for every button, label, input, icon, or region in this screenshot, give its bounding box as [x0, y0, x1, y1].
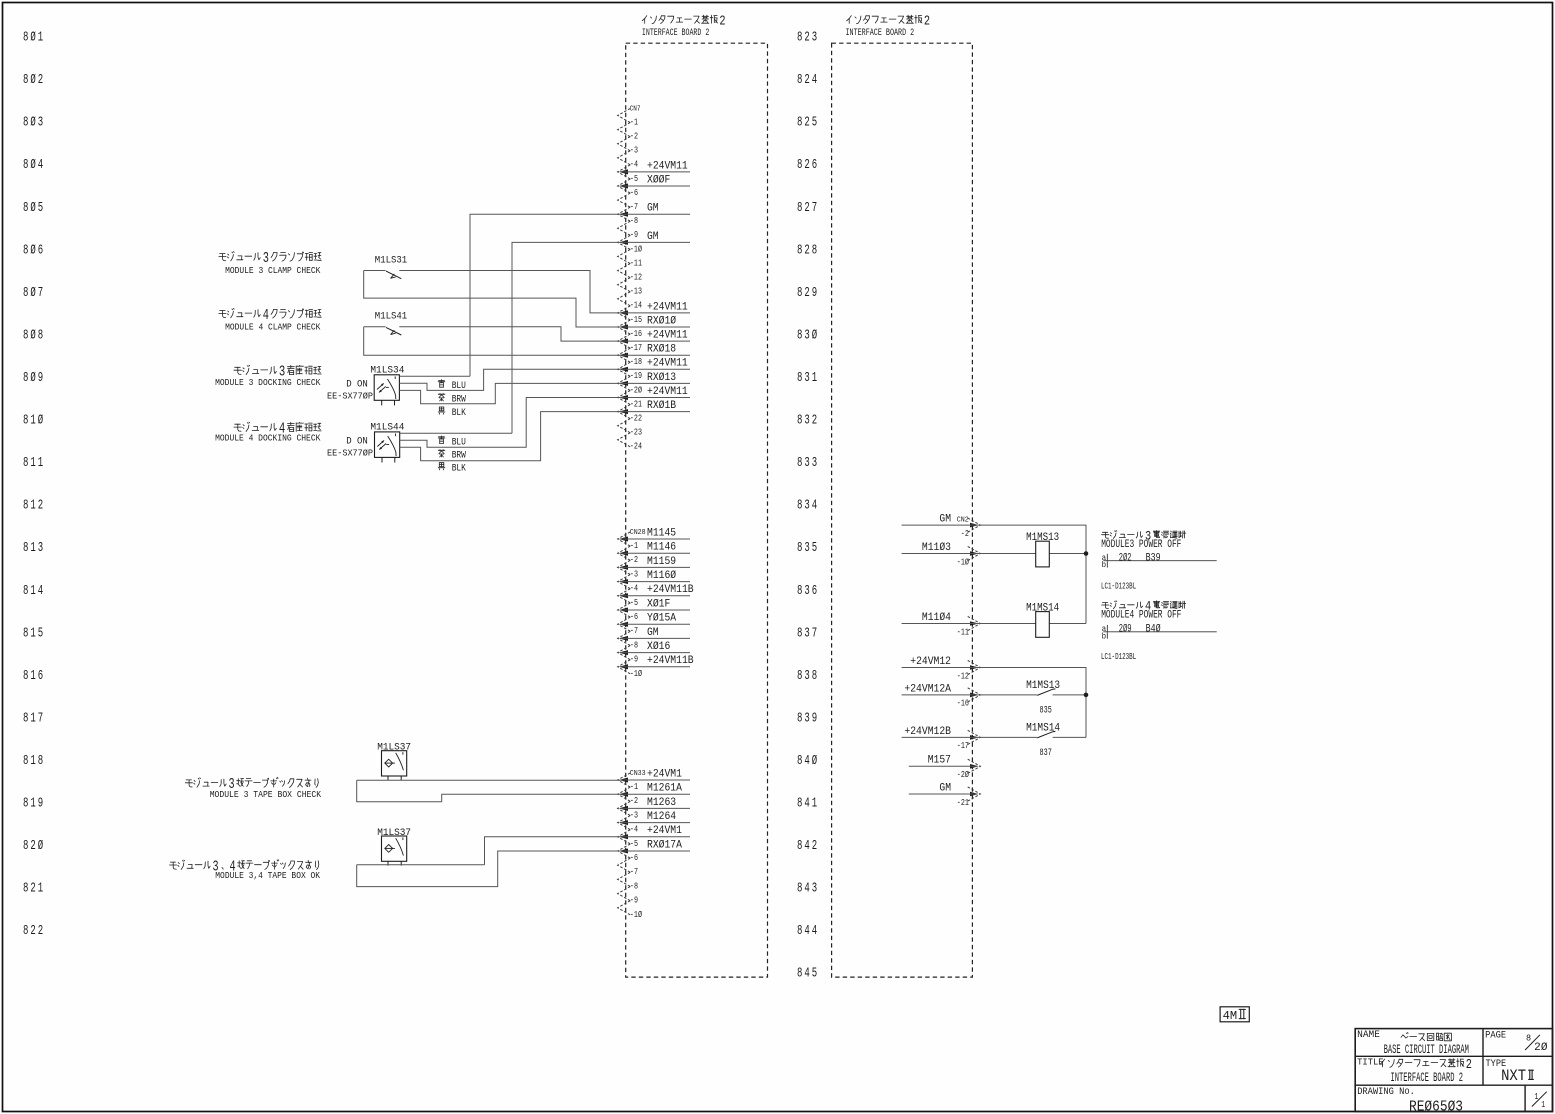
svg-text:D ON: D ON: [346, 435, 368, 446]
connector CN7 pin 24: [618, 433, 631, 447]
wire CN7-15 stub: [621, 326, 691, 328]
connector CN33 pin 5: [618, 830, 631, 844]
connector CN28 pin 6: [618, 603, 631, 617]
label CN7 pin number -3: [630, 145, 638, 156]
svg-text:M1264: M1264: [647, 811, 676, 823]
svg-text:5: 5: [812, 967, 817, 982]
svg-text:3: 3: [804, 669, 809, 684]
label CN28 pin number -6: [630, 611, 638, 622]
svg-text:M1261A: M1261A: [647, 783, 682, 795]
svg-text:7: 7: [812, 626, 817, 641]
wire CN33 row 6 stub: [621, 850, 691, 852]
connector CN33 pin 3: [618, 801, 631, 815]
label 4M II machine tag: [1220, 1007, 1249, 1023]
svg-text:9: 9: [812, 286, 817, 301]
svg-text:INTERFACE BOARD 2: INTERFACE BOARD 2: [642, 27, 709, 38]
svg-text:B39: B39: [1146, 552, 1161, 564]
svg-text:8: 8: [797, 669, 802, 684]
svg-text:M1LS41: M1LS41: [375, 311, 407, 323]
svg-text:PAGE: PAGE: [1485, 1029, 1506, 1041]
svg-text:-3: -3: [630, 568, 638, 579]
label MODULE 3 TAPE BOX CHECK: [185, 777, 321, 800]
wire CN33 row 3 stub: [621, 807, 691, 809]
svg-text:-2: -2: [630, 131, 638, 142]
svg-text:+24VM11: +24VM11: [647, 160, 688, 172]
label CN33 pin number -7: [630, 866, 638, 877]
net M1146 at CN28 signal label: [647, 542, 676, 554]
connector CN7 pin 5: [618, 165, 631, 179]
svg-text:M1LS37: M1LS37: [377, 742, 411, 754]
connector CN28 pin 9: [618, 646, 631, 660]
connector CN7 pin 12: [618, 264, 631, 278]
svg-text:-1: -1: [630, 781, 638, 792]
svg-text:TITLE: TITLE: [1357, 1057, 1384, 1068]
wire CN7-14 stub: [621, 312, 691, 314]
svg-text:NAME: NAME: [1357, 1029, 1380, 1041]
wire M1LS41 left terminal: [364, 326, 386, 328]
svg-text:8: 8: [23, 797, 28, 812]
svg-text:8: 8: [797, 73, 802, 88]
wire M1LS31 return to CN7-15 (RX010): [364, 271, 621, 328]
svg-text:8: 8: [23, 711, 28, 726]
limit switch M1LS31 (module 3 clamp): [375, 255, 407, 279]
label MODULE 3,4 TAPE BOX OK: [170, 859, 321, 881]
svg-text:GM: GM: [647, 627, 659, 639]
wire M1104 to coil M1MS14: [902, 623, 1086, 625]
wire CN28 row 1 stub: [621, 538, 691, 540]
svg-text:b: b: [1102, 633, 1107, 641]
svg-text:1: 1: [30, 456, 35, 471]
svg-text:-12: -12: [630, 272, 642, 283]
wire CN28 row 7 stub: [621, 623, 691, 625]
wire CN28 row 2 stub: [621, 552, 691, 554]
wire CN28 row 8 stub: [621, 637, 691, 639]
wire GM CN7-9 to M1LS44: [512, 242, 621, 433]
wire CN33 row 1 stub: [621, 779, 691, 781]
connector CN7 label: [630, 106, 641, 114]
connector CN7 pin 11: [618, 249, 631, 263]
label CN28 pin number -3: [630, 568, 638, 579]
svg-text:-16: -16: [630, 328, 642, 339]
svg-text:Ø: Ø: [30, 327, 35, 343]
svg-text:-1Ø: -1Ø: [630, 909, 642, 920]
svg-text:4: 4: [812, 73, 817, 88]
label interface board 2 (right) header: [846, 14, 931, 38]
connector CN33 label: [630, 770, 646, 778]
svg-text:-7: -7: [630, 201, 638, 212]
net YØ15A at CN28 signal label: [647, 613, 676, 625]
svg-text:4: 4: [263, 308, 269, 324]
label CN7 pin number -23: [630, 427, 642, 438]
interface board U-IF2L: INTERFACE BOARD 2 (left) dashed outline: [626, 43, 768, 977]
net GM at CN28 signal label: [647, 627, 659, 639]
svg-text:BRW: BRW: [452, 451, 467, 462]
connector CN33 pin 6: [618, 844, 631, 858]
svg-text:8: 8: [797, 456, 802, 471]
label CN7 pin number -8: [630, 215, 638, 226]
svg-text:8: 8: [23, 31, 28, 46]
proximity sensor M1LS37 (module 3,4 tape box): [377, 827, 411, 866]
svg-text:4: 4: [804, 924, 809, 939]
svg-text:-5: -5: [630, 597, 638, 608]
svg-text:INTERFACE BOARD 2: INTERFACE BOARD 2: [846, 27, 915, 38]
label CN28 pin number -9: [630, 654, 638, 665]
svg-text:8: 8: [797, 328, 802, 343]
svg-text:-5: -5: [630, 173, 638, 184]
svg-text:-2: -2: [630, 554, 638, 565]
svg-text:Ø: Ø: [30, 242, 35, 258]
svg-text:9: 9: [38, 371, 43, 386]
wire CN28 row 5 stub: [621, 595, 691, 597]
wire M1LS31 left terminal: [364, 270, 386, 272]
svg-text:8: 8: [797, 541, 802, 556]
net RXØ18 at CN7-17 signal label: [647, 344, 676, 356]
photoelectric sensor M1LS44 EE-SX770P (module 4 docking): [327, 422, 404, 463]
contactor coil M1MS14: [1026, 602, 1059, 637]
label CN28 pin number -1: [630, 540, 638, 551]
label CN7 pin number -18: [630, 356, 642, 367]
svg-text:-19: -19: [630, 370, 642, 381]
connector CN33 pin 7: [618, 858, 631, 872]
connector CN33 pin 9: [618, 887, 631, 901]
connector CN2 pin -2: [968, 518, 981, 532]
wire +24VM12B through contact M1MS14: [902, 736, 1086, 738]
wire M157 stub CN2-20: [909, 765, 977, 767]
wire CN28 row 6 stub: [621, 609, 691, 611]
svg-text:BASE CIRCUIT DIAGRAM: BASE CIRCUIT DIAGRAM: [1384, 1042, 1469, 1057]
svg-text:8: 8: [797, 967, 802, 982]
svg-text:4: 4: [804, 839, 809, 854]
svg-text:-7: -7: [630, 625, 638, 636]
net +24VM11 at CN7-20 signal label: [647, 386, 688, 398]
svg-text:8: 8: [797, 839, 802, 854]
wire M1LS37b feed: [357, 864, 485, 866]
svg-text:8: 8: [797, 924, 802, 939]
svg-text:M1LS31: M1LS31: [375, 255, 407, 267]
svg-text:5: 5: [38, 626, 43, 641]
svg-text:Ø: Ø: [812, 327, 817, 343]
svg-text:3: 3: [804, 541, 809, 556]
svg-text:BLK: BLK: [452, 408, 467, 419]
connector CN28 pin 1: [618, 532, 631, 546]
label CN33 pin number -9: [630, 895, 638, 906]
svg-text:-14: -14: [630, 300, 642, 311]
connector CN33 pin 8: [618, 872, 631, 886]
label CN2 pin number -12: [957, 670, 969, 681]
label CN7 pin number -17: [630, 342, 642, 353]
svg-text:-4: -4: [630, 583, 638, 594]
connector CN7 pin 4: [618, 151, 631, 165]
label CN2 pin number -2: [961, 528, 969, 539]
svg-text:4: 4: [804, 882, 809, 897]
label NAME: BASE CIRCUIT DIAGRAM: [1357, 1029, 1469, 1057]
net M11Ø3 at CN2 signal label: [922, 542, 951, 554]
svg-text:EE-SX77ØP: EE-SX77ØP: [327, 449, 373, 459]
label CN33 pin number -6: [630, 852, 638, 863]
net XØ16 at CN28 signal label: [647, 641, 670, 653]
svg-text:GM: GM: [939, 782, 951, 794]
limit switch M1LS41 (module 4 clamp): [375, 311, 407, 336]
svg-text:8: 8: [797, 584, 802, 599]
net XØØF at CN7-5 signal label: [647, 174, 670, 186]
wire M1LS41 return to CN7-17 (RX018): [364, 327, 621, 355]
label CN7 pin number -15: [630, 314, 642, 325]
label CN7 pin number -4: [630, 159, 638, 170]
svg-text:8: 8: [38, 328, 43, 343]
svg-text:2: 2: [812, 414, 817, 429]
connector CN7 pin 8: [618, 207, 631, 221]
connector CN2 pin -16: [968, 688, 981, 702]
label coil M1MS14 contact cross-references a/b 209 B40: [1102, 624, 1217, 642]
wire CN7-17 stub: [621, 354, 691, 356]
svg-text:4: 4: [38, 584, 43, 599]
label CN7 pin number -5: [630, 173, 638, 184]
label CN7 pin number -11: [630, 257, 642, 268]
label CN33 pin number -5: [630, 838, 638, 849]
svg-text:D ON: D ON: [346, 378, 368, 389]
svg-text:-6: -6: [630, 611, 638, 622]
svg-text:2: 2: [38, 73, 43, 88]
svg-text:3: 3: [804, 626, 809, 641]
wire M1103 to coil M1MS13: [902, 553, 1086, 555]
net RXØ1B at CN7-21 signal label: [647, 400, 676, 412]
connector CN2 pin -2Ø: [968, 759, 981, 773]
wire CN7-5 stub: [621, 185, 691, 187]
net M1145 at CN28 signal label: [647, 527, 676, 539]
label CN33 pin number -4: [630, 824, 638, 835]
svg-text:M1MS14: M1MS14: [1026, 602, 1059, 614]
svg-text:LC1-D123BL: LC1-D123BL: [1101, 581, 1136, 591]
connector CN7 pin 9: [618, 221, 631, 235]
svg-text:MODULE 3 TAPE BOX CHECK: MODULE 3 TAPE BOX CHECK: [210, 790, 322, 800]
svg-text:3: 3: [804, 371, 809, 386]
label CN33 pin number -2: [630, 795, 638, 806]
label PAGE 8/20: [1485, 1029, 1548, 1054]
svg-text:2: 2: [812, 839, 817, 854]
connector CN28 pin 2: [618, 546, 631, 560]
connector CN7 pin 23: [618, 419, 631, 433]
label CN2 pin number -16: [957, 698, 969, 709]
label DRAWING No. RE06503: [1357, 1086, 1463, 1114]
connector CN7 pin 7: [618, 193, 631, 207]
svg-text:-11: -11: [957, 626, 969, 637]
svg-text:-22: -22: [630, 413, 642, 424]
connector CN7 pin 20: [618, 376, 631, 390]
connector CN7 pin 2: [618, 123, 631, 137]
svg-text:8: 8: [797, 243, 802, 258]
svg-text:-13: -13: [630, 286, 642, 297]
svg-text:XØ1F: XØ1F: [647, 598, 670, 610]
svg-text:M1MS13: M1MS13: [1026, 680, 1060, 692]
connector CN7 pin 13: [618, 278, 631, 292]
svg-text:RXØ18: RXØ18: [647, 344, 676, 356]
svg-text:8: 8: [23, 201, 28, 216]
svg-text:2: 2: [804, 286, 809, 301]
svg-text:M157: M157: [928, 755, 951, 767]
svg-text:-21: -21: [957, 797, 969, 808]
svg-text:M116Ø: M116Ø: [647, 570, 676, 582]
net RXØ1Ø at CN7-15 signal label: [647, 315, 676, 327]
svg-text:-4: -4: [630, 159, 638, 170]
wire GM CN2-2 to bus: [902, 525, 1086, 623]
svg-text:XØ16: XØ16: [647, 641, 670, 653]
svg-text:8: 8: [23, 924, 28, 939]
svg-text:8: 8: [23, 626, 28, 641]
net +24VM12A at CN2 signal label: [904, 683, 951, 695]
svg-text:Ø: Ø: [812, 753, 817, 769]
connector CN7 pin 3: [618, 137, 631, 151]
svg-text:-4: -4: [630, 824, 638, 835]
svg-text:3: 3: [263, 251, 269, 267]
svg-text:2: 2: [719, 14, 725, 29]
svg-text:4M: 4M: [1223, 1009, 1238, 1023]
svg-text:-16: -16: [957, 698, 969, 709]
svg-text:Ø: Ø: [30, 30, 35, 46]
label CN7 pin number -6: [630, 187, 638, 198]
svg-text:3: 3: [804, 499, 809, 514]
svg-text:-1Ø: -1Ø: [957, 556, 969, 567]
label MODULE3 POWER OFF: [1101, 529, 1186, 551]
net GM at CN2 signal label: [939, 782, 951, 794]
connector CN7 pin 10: [618, 235, 631, 249]
svg-text:YØ15A: YØ15A: [647, 613, 676, 625]
NO contact M1MS13 (ref 835): [1026, 680, 1060, 716]
connector CN2 label: [957, 516, 969, 524]
svg-text:RXØ1Ø: RXØ1Ø: [647, 315, 676, 327]
svg-text:Ø: Ø: [30, 370, 35, 386]
svg-text:RXØ17A: RXØ17A: [647, 839, 682, 851]
svg-text:BLK: BLK: [452, 464, 467, 475]
contactor coil M1MS13: [1026, 532, 1059, 567]
label CN7 pin number -22: [630, 413, 642, 424]
svg-text:Ø: Ø: [30, 285, 35, 301]
svg-text:MODULE 3 CLAMP CHECK: MODULE 3 CLAMP CHECK: [225, 266, 321, 276]
svg-text:8: 8: [797, 201, 802, 216]
label CN33 pin number -8: [630, 880, 638, 891]
svg-text:M1145: M1145: [647, 527, 676, 539]
wire M1LS34 blue lead (GM): [399, 375, 470, 377]
svg-text:-17: -17: [630, 342, 642, 353]
wire CN33 row 4 stub: [621, 822, 691, 824]
svg-text:3: 3: [804, 328, 809, 343]
svg-text:MODULE 4 DOCKING CHECK: MODULE 4 DOCKING CHECK: [215, 434, 321, 444]
wire CN7-19 stub: [621, 382, 691, 384]
svg-text:-1Ø: -1Ø: [630, 668, 642, 679]
svg-text:2: 2: [924, 14, 930, 29]
svg-text:CN33: CN33: [630, 770, 646, 778]
wire CN33 row 2 stub: [621, 793, 691, 795]
connector CN33 pin 4: [618, 816, 631, 830]
svg-text:+24VM11: +24VM11: [647, 301, 688, 313]
net M116Ø at CN28 signal label: [647, 570, 676, 582]
svg-text:8: 8: [38, 754, 43, 769]
svg-text:8: 8: [797, 31, 802, 46]
svg-text:MODULE 3,4 TAPE BOX OK: MODULE 3,4 TAPE BOX OK: [215, 871, 320, 881]
svg-text:8: 8: [23, 116, 28, 131]
svg-text:8: 8: [812, 669, 817, 684]
svg-text:1: 1: [30, 584, 35, 599]
connector CN28 pin 10: [618, 660, 631, 674]
svg-text:-2: -2: [630, 795, 638, 806]
svg-text:-3: -3: [630, 809, 638, 820]
svg-text:+24VM12B: +24VM12B: [904, 726, 951, 738]
junction node GM/M1MS13: [1084, 551, 1089, 556]
svg-text:1: 1: [812, 797, 817, 812]
svg-text:8: 8: [797, 626, 802, 641]
node line-numbers 823-845: [797, 31, 817, 982]
label MODULE 4 DOCKING CHECK: [215, 422, 321, 444]
connector CN7 pin 14: [618, 292, 631, 306]
svg-text:8: 8: [797, 499, 802, 514]
label CN2 pin number -2Ø: [957, 769, 969, 780]
label CN28 pin number -8: [630, 639, 638, 650]
label CN28 pin number -10: [630, 668, 642, 679]
svg-text:-1: -1: [630, 116, 638, 127]
wire CN7-16 stub: [621, 340, 691, 342]
wire CN7-21 stub: [621, 411, 691, 413]
svg-text:MODULE 4 CLAMP CHECK: MODULE 4 CLAMP CHECK: [225, 322, 321, 332]
svg-text:6: 6: [38, 669, 43, 684]
svg-text:3: 3: [804, 711, 809, 726]
label CN7 pin number -20: [630, 384, 642, 395]
node line-numbers 801-822: [23, 30, 43, 940]
svg-text:-2: -2: [961, 528, 969, 539]
svg-text:2Ø: 2Ø: [1534, 1042, 1548, 1054]
wire CN7-20 stub: [621, 397, 691, 399]
svg-text:NXT: NXT: [1501, 1067, 1526, 1085]
net M1159 at CN28 signal label: [647, 556, 676, 568]
svg-text:M1146: M1146: [647, 542, 676, 554]
svg-text:1: 1: [30, 414, 35, 429]
svg-text:+24VM11: +24VM11: [647, 330, 688, 342]
svg-text:8: 8: [23, 243, 28, 258]
svg-text:3: 3: [812, 882, 817, 897]
connector CN7 pin 22: [618, 405, 631, 419]
svg-text:1: 1: [30, 711, 35, 726]
net RXØ17A at CN33 signal label: [647, 839, 682, 851]
net GM at CN7-7 signal label: [647, 203, 659, 215]
wire M1LS41 to CN7-16 (+24VM11): [399, 327, 620, 341]
svg-text:-9: -9: [630, 229, 638, 240]
svg-text:Ø: Ø: [38, 413, 43, 429]
svg-text:-11: -11: [630, 257, 642, 268]
svg-text:1: 1: [812, 371, 817, 386]
label CN28 pin number -7: [630, 625, 638, 636]
label CN2 pin number -11: [957, 626, 969, 637]
connector CN2 pin -21: [968, 787, 981, 801]
svg-text:4: 4: [812, 924, 817, 939]
svg-text:1: 1: [30, 499, 35, 514]
svg-text:XØØF: XØØF: [647, 174, 670, 186]
label CN2 pin number -21: [957, 797, 969, 808]
svg-text:8: 8: [797, 797, 802, 812]
svg-text:+24VM12: +24VM12: [910, 656, 951, 668]
svg-text:8: 8: [797, 414, 802, 429]
svg-text:3: 3: [804, 584, 809, 599]
label TITLE: INTERFACE BOARD 2: [1357, 1057, 1472, 1085]
connector CN28 pin 8: [618, 631, 631, 645]
label LC1-D123BL (M1MS13): [1101, 581, 1136, 591]
svg-text:5: 5: [812, 116, 817, 131]
svg-text:2: 2: [30, 924, 35, 939]
svg-text:+24VM11B: +24VM11B: [647, 655, 694, 667]
svg-text:CN28: CN28: [630, 529, 646, 537]
svg-text:8: 8: [797, 711, 802, 726]
svg-text:M1MS14: M1MS14: [1026, 722, 1060, 734]
label CN7 pin number -9: [630, 229, 638, 240]
svg-text:1: 1: [30, 626, 35, 641]
svg-text:MODULE 3 DOCKING CHECK: MODULE 3 DOCKING CHECK: [215, 378, 321, 388]
